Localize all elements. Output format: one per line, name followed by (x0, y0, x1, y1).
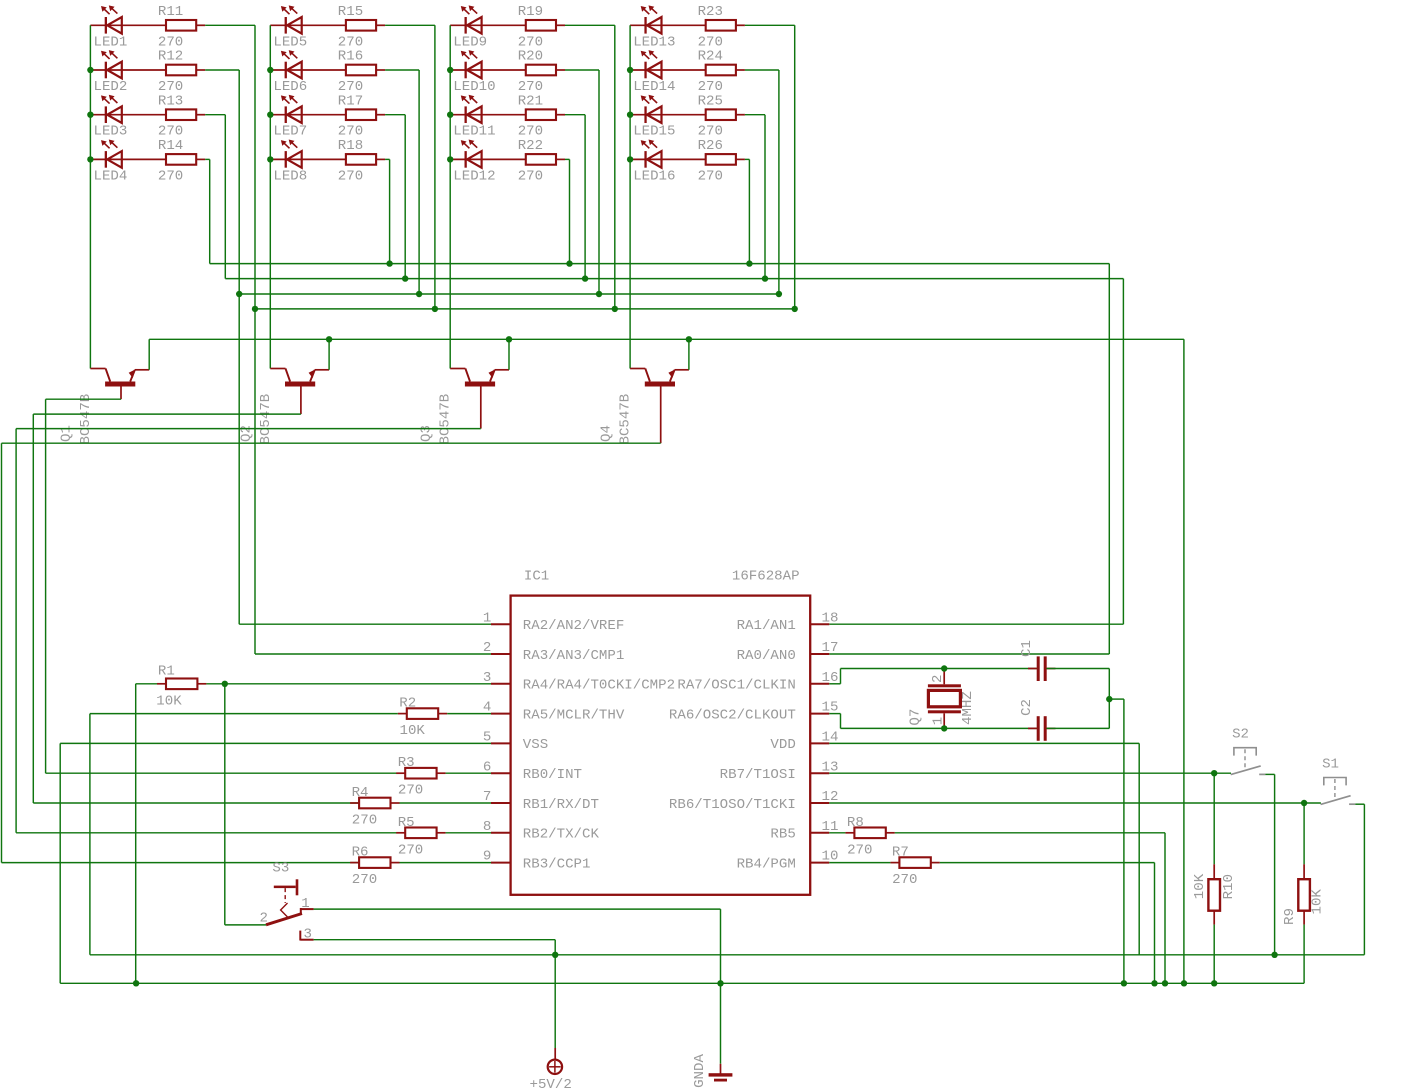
+5V supply symbol (530, 1048, 572, 1092)
svg-text:1: 1 (483, 610, 491, 626)
svg-text:LED7: LED7 (273, 124, 307, 140)
LED LED8 (270, 140, 346, 185)
wire R1 left to GND rail (136, 684, 157, 984)
svg-text:RB0/INT: RB0/INT (523, 767, 582, 783)
resistor R19 270 (518, 4, 565, 50)
wire LED column 3 cathode (449, 25, 451, 368)
svg-text:C2: C2 (1019, 699, 1035, 716)
LED LED13 (630, 5, 706, 50)
svg-text:Q3: Q3 (418, 425, 434, 442)
transistor Q3 BC547B (418, 369, 509, 445)
wire S1 right to +5V rail (1355, 804, 1364, 955)
svg-text:LED1: LED1 (94, 34, 128, 50)
svg-text:RB3/CCP1: RB3/CCP1 (523, 856, 591, 872)
wire S1 left stub (1304, 802, 1321, 804)
wire ROW3 bus to pin 18 (829, 279, 1123, 625)
svg-text:R23: R23 (698, 4, 723, 20)
wire +5V rail (90, 954, 1365, 956)
svg-text:LED6: LED6 (273, 79, 307, 95)
LED LED15 (630, 95, 706, 140)
svg-text:LED5: LED5 (273, 34, 307, 50)
svg-text:LED12: LED12 (453, 168, 495, 184)
svg-text:R11: R11 (158, 4, 183, 20)
wire Q2 base to R4 (33, 414, 359, 803)
svg-text:10K: 10K (156, 693, 182, 709)
svg-text:Q7: Q7 (908, 709, 924, 726)
wire VSS pin 5 to GND rail (60, 743, 491, 983)
svg-text:BC547B: BC547B (78, 394, 94, 445)
wire R5 right to pin 8 (446, 832, 491, 834)
svg-text:Q1: Q1 (59, 425, 75, 442)
LED LED16 (630, 140, 706, 185)
op-amp IC1 16F628AP (PIC microcontroller) (483, 569, 839, 895)
wire pin 13 to S2 (829, 772, 1214, 774)
wire R23 to row bus (745, 25, 795, 309)
resistor R17 270 (338, 93, 385, 139)
resistor R20 270 (518, 49, 565, 95)
svg-text:270: 270 (518, 168, 543, 184)
svg-text:R16: R16 (338, 49, 363, 65)
svg-text:270: 270 (352, 872, 377, 888)
svg-text:R3: R3 (398, 755, 415, 771)
svg-text:GNDA: GNDA (692, 1054, 708, 1088)
wire VDD pin 14 to +5V rail (829, 743, 1139, 954)
resistor R11 270 (158, 4, 205, 50)
svg-text:2: 2 (260, 911, 268, 927)
svg-text:4MHZ: 4MHZ (960, 691, 976, 725)
svg-text:RA5/MCLR/THV: RA5/MCLR/THV (523, 707, 625, 723)
transistor Q1 BC547B (59, 369, 150, 445)
svg-text:R8: R8 (847, 815, 864, 831)
junction node RA4/R1/S3 (222, 681, 228, 687)
junction dots LED column 2 (267, 67, 273, 163)
junction dots GND rail (133, 980, 1218, 986)
svg-text:2: 2 (930, 675, 946, 683)
wire R2 left to +5V rail (90, 714, 398, 955)
svg-text:RB2/TX/CK: RB2/TX/CK (523, 827, 600, 843)
wire R12 to row bus (205, 70, 239, 294)
resistor R10 10K (1192, 864, 1237, 924)
junction dot crystal pin2 (941, 665, 947, 671)
svg-text:RB4/PGM: RB4/PGM (737, 856, 796, 872)
svg-text:R14: R14 (158, 138, 183, 154)
svg-text:RA0/AN0: RA0/AN0 (737, 648, 796, 664)
switch S3 (260, 860, 314, 942)
LED LED5 (270, 5, 346, 50)
wire R3 right to pin 6 (446, 772, 491, 774)
wire R21 to row bus (565, 115, 585, 279)
svg-text:10K: 10K (400, 723, 426, 739)
wire R4 right to pin 7 (400, 802, 492, 804)
wire pin 11 to R8 (829, 832, 845, 834)
wire Q3 emitter up (508, 339, 510, 370)
wire S2 right to +5V rail (1265, 774, 1274, 954)
junction node S2/R10/RB7 (1211, 770, 1217, 776)
junction dots +5V rail (552, 952, 1278, 958)
wire RA4 junction down to S3 (225, 684, 266, 925)
wire Q1 emitter up (148, 339, 150, 370)
wire C2 right to common (1047, 727, 1110, 729)
wire R8 to GND rail (895, 833, 1165, 984)
wire Q4 emitter up (688, 339, 690, 370)
resistor R18 270 (338, 138, 385, 184)
junction dots emitter bus (326, 336, 692, 342)
svg-text:270: 270 (892, 872, 917, 888)
svg-text:R25: R25 (698, 93, 723, 109)
svg-text:LED3: LED3 (94, 124, 128, 140)
svg-text:LED13: LED13 (633, 34, 675, 50)
resistor R22 270 (518, 138, 565, 184)
resistor R25 270 (698, 93, 745, 139)
wire R14 to row bus (205, 159, 210, 263)
wire pin 16 to crystal/C1 (829, 669, 1037, 684)
svg-text:IC1: IC1 (524, 569, 549, 585)
svg-text:270: 270 (338, 168, 363, 184)
wire S2 node down to R10 (1213, 773, 1215, 864)
wire R10 to GND rail (1213, 925, 1215, 984)
svg-text:17: 17 (822, 640, 839, 656)
svg-text:270: 270 (398, 842, 423, 858)
LED LED14 (630, 50, 706, 95)
junction dots LED column 1 (87, 67, 93, 163)
svg-text:RB1/RX/DT: RB1/RX/DT (523, 797, 599, 813)
wire Q3 base to R5 (16, 429, 481, 833)
svg-text:RA6/OSC2/CLKOUT: RA6/OSC2/CLKOUT (669, 707, 796, 723)
svg-text:270: 270 (158, 168, 183, 184)
svg-text:R9: R9 (1282, 908, 1298, 925)
resistor R15 270 (338, 4, 385, 50)
wire S2 left stub (1214, 772, 1231, 774)
svg-text:C1: C1 (1019, 640, 1035, 657)
svg-text:RA4/RA4/T0CKI/CMP2: RA4/RA4/T0CKI/CMP2 (523, 678, 675, 694)
LED LED2 (90, 50, 166, 95)
wire R19 to row bus (565, 25, 615, 309)
junction dots ROW3 bus (402, 275, 768, 281)
wire R7 to GND rail (940, 863, 1155, 984)
LED LED3 (90, 95, 166, 140)
switch S2 pushbutton (1231, 726, 1266, 774)
wire net ROW1 bus (255, 308, 795, 310)
junction dots LED column 3 (447, 67, 453, 163)
wire ROW2 bus to pin 1 (239, 294, 491, 624)
svg-text:LED9: LED9 (453, 34, 487, 50)
resistor R6 270 (350, 845, 399, 889)
resistor R4 270 (350, 785, 399, 829)
svg-text:VDD: VDD (770, 737, 795, 753)
svg-text:RB5: RB5 (770, 827, 795, 843)
svg-text:RB6/T1OSO/T1CKI: RB6/T1OSO/T1CKI (669, 797, 796, 813)
LED LED12 (450, 140, 526, 185)
svg-text:R12: R12 (158, 49, 183, 65)
resistor R3 270 (396, 755, 445, 799)
LED LED4 (90, 140, 166, 185)
svg-text:R10: R10 (1221, 874, 1237, 899)
svg-text:Q4: Q4 (598, 425, 614, 442)
LED LED6 (270, 50, 346, 95)
resistor R1 10K (156, 664, 206, 710)
svg-text:R24: R24 (698, 49, 723, 65)
svg-text:R5: R5 (398, 815, 415, 831)
resistor R23 270 (698, 4, 745, 50)
svg-text:RB7/T1OSI: RB7/T1OSI (720, 767, 796, 783)
wire R20 to row bus (565, 70, 599, 294)
wire pin 12 to S1 (829, 802, 1304, 804)
wire caps common to GND rail (1109, 699, 1124, 983)
svg-text:S3: S3 (272, 860, 289, 876)
svg-text:1: 1 (931, 717, 947, 725)
resistor R14 270 (158, 138, 205, 184)
wire R6 right to pin 9 (400, 862, 492, 864)
svg-text:R22: R22 (518, 138, 543, 154)
svg-text:LED15: LED15 (633, 124, 675, 140)
junction dot crystal pin1 (941, 725, 947, 731)
svg-text:LED16: LED16 (633, 168, 675, 184)
wire LED column 2 cathode (269, 25, 271, 368)
wire R17 to row bus (385, 115, 405, 279)
wire C1 right to common (1047, 669, 1110, 729)
svg-text:R2: R2 (399, 696, 416, 712)
wire LED column 1 cathode (89, 25, 91, 368)
wire net ROW3 bus (225, 278, 1123, 280)
wire pin 15 to crystal/C2 (829, 714, 1037, 729)
svg-text:VSS: VSS (523, 737, 548, 753)
resistor R12 270 (158, 49, 205, 95)
wire net ROW4 bus (210, 263, 1110, 265)
junction dots ROW4 bus (386, 260, 752, 266)
LED LED11 (450, 95, 526, 140)
svg-text:R1: R1 (158, 664, 175, 680)
svg-text:BC547B: BC547B (438, 394, 454, 445)
junction dot C1/C2 common (1106, 696, 1112, 702)
wire LED column 4 cathode (629, 25, 631, 368)
svg-text:R13: R13 (158, 93, 183, 109)
wire Q4 base to R6 (2, 443, 661, 862)
resistor R26 270 (698, 138, 745, 184)
capacitor C1 (1019, 640, 1056, 681)
svg-text:3: 3 (304, 927, 312, 943)
wire R9 to GND rail (1303, 925, 1305, 984)
wire R2 right to pin 4 (447, 713, 491, 715)
svg-text:RA1/AN1: RA1/AN1 (737, 618, 796, 634)
svg-text:LED14: LED14 (633, 79, 675, 95)
svg-text:R19: R19 (518, 4, 543, 20)
svg-text:BC547B: BC547B (618, 394, 634, 445)
svg-text:RA2/AN2/VREF: RA2/AN2/VREF (523, 618, 625, 634)
wire Q1 base to R3 (46, 399, 406, 773)
resistor R16 270 (338, 49, 385, 95)
svg-text:RA7/OSC1/CLKIN: RA7/OSC1/CLKIN (677, 678, 795, 694)
resistor R7 270 (890, 845, 939, 889)
resistor R9 10K (1282, 864, 1326, 925)
wire ROW1 bus to pin 2 (255, 309, 491, 654)
svg-text:10K: 10K (1192, 873, 1208, 899)
wire GND rail (60, 982, 1304, 984)
resistor R8 270 (845, 815, 894, 859)
svg-text:270: 270 (352, 813, 377, 829)
resistor R2 10K (398, 696, 447, 740)
LED LED7 (270, 95, 346, 140)
svg-text:LED4: LED4 (94, 168, 128, 184)
svg-text:18: 18 (822, 610, 839, 626)
transistor Q2 BC547B (239, 369, 330, 445)
svg-text:Q2: Q2 (239, 425, 255, 442)
wire R22 to row bus (565, 159, 570, 263)
svg-text:R18: R18 (338, 138, 363, 154)
svg-text:R21: R21 (518, 93, 543, 109)
svg-text:RA3/AN3/CMP1: RA3/AN3/CMP1 (523, 648, 625, 664)
junction dots ROW2 bus (236, 291, 782, 297)
junction dots ROW1 bus (252, 306, 798, 312)
capacitor C2 (1019, 699, 1056, 741)
crystal Q7 4MHZ (908, 669, 977, 729)
svg-text:R20: R20 (518, 49, 543, 65)
svg-text:16F628AP: 16F628AP (732, 569, 800, 585)
junction dots LED column 4 (627, 67, 633, 163)
svg-text:2: 2 (483, 640, 491, 656)
svg-text:270: 270 (398, 783, 423, 799)
resistor R21 270 (518, 93, 565, 139)
svg-text:S1: S1 (1322, 756, 1339, 772)
resistor R24 270 (698, 49, 745, 95)
wire R25 to row bus (745, 115, 765, 279)
wire R15 to row bus (385, 25, 435, 309)
svg-text:R7: R7 (892, 845, 909, 861)
svg-text:BC547B: BC547B (258, 394, 274, 445)
svg-text:LED8: LED8 (273, 168, 307, 184)
svg-text:LED2: LED2 (94, 79, 128, 95)
svg-text:270: 270 (698, 168, 723, 184)
svg-text:10K: 10K (1310, 889, 1326, 915)
LED LED1 (90, 5, 166, 50)
wire R11 to row bus (205, 25, 255, 309)
wire ROW4 bus to pin 17 (829, 264, 1109, 654)
wire R16 to row bus (385, 70, 419, 294)
LED LED9 (450, 5, 526, 50)
wire pin 10 to R7 (829, 862, 890, 864)
wire net ROW2 bus (239, 293, 779, 295)
wire S1 node down to R9 (1303, 803, 1305, 864)
wire emitter ground bus (149, 339, 1184, 983)
resistor R5 270 (396, 815, 445, 859)
ground GNDA (692, 1054, 732, 1088)
svg-text:1: 1 (301, 896, 309, 912)
svg-text:+5V/2: +5V/2 (530, 1077, 572, 1092)
svg-text:R26: R26 (698, 138, 723, 154)
wire R24 to row bus (745, 70, 779, 294)
wire R13 to row bus (205, 115, 225, 279)
LED LED10 (450, 50, 526, 95)
wire R26 to row bus (745, 159, 750, 263)
svg-text:R15: R15 (338, 4, 363, 20)
wire R18 to row bus (385, 159, 390, 263)
wire S3 pin3 to +5V (314, 940, 556, 1048)
junction node S1/R9/RB6 (1301, 800, 1307, 806)
svg-text:R17: R17 (338, 93, 363, 109)
svg-text:R4: R4 (352, 785, 369, 801)
svg-text:LED10: LED10 (453, 79, 495, 95)
wire R1 right to pin 3 (206, 683, 491, 685)
transistor Q4 BC547B (598, 369, 689, 445)
switch S1 pushbutton (1321, 756, 1356, 804)
svg-text:270: 270 (847, 842, 872, 858)
svg-text:S2: S2 (1232, 726, 1249, 742)
svg-text:R6: R6 (352, 845, 369, 861)
resistor R13 270 (158, 93, 205, 139)
wire Q2 emitter up (328, 339, 330, 370)
wire S3 pin1 to GNDA (314, 909, 721, 1064)
svg-text:LED11: LED11 (453, 124, 495, 140)
